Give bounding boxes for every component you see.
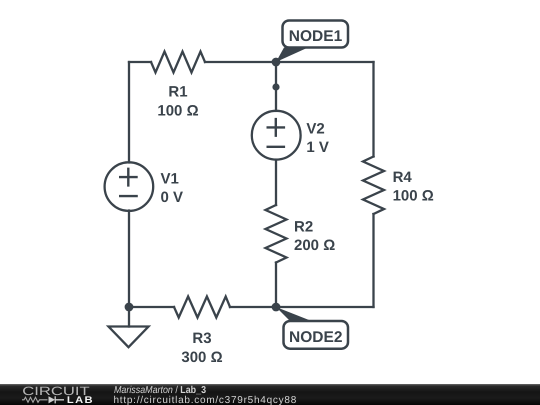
V1 minus sign <box>120 195 136 197</box>
svg-text:R3: R3 <box>192 330 211 347</box>
wire right side upper <box>372 62 374 157</box>
svg-text:300 Ω: 300 Ω <box>181 349 222 366</box>
logo resistor squiggle <box>22 397 48 402</box>
svg-text:NODE2: NODE2 <box>289 329 342 346</box>
svg-text:R1: R1 <box>168 83 187 100</box>
footer author line <box>114 386 206 396</box>
NODE2 label box <box>284 321 349 349</box>
V1 plus sign <box>120 169 136 186</box>
svg-text:200 Ω: 200 Ω <box>294 237 335 254</box>
NODE1 flag tail <box>276 48 308 63</box>
junction dot V2 top terminal <box>272 83 279 90</box>
svg-text:100 Ω: 100 Ω <box>157 102 198 119</box>
wire top-left to R1 <box>129 61 151 63</box>
resistor R1 <box>151 52 205 73</box>
logo diode <box>49 396 56 403</box>
voltage source V2 circle <box>252 111 301 160</box>
svg-text:R2: R2 <box>294 219 313 236</box>
svg-text:NODE1: NODE1 <box>289 28 343 45</box>
resistor R4 <box>363 157 384 215</box>
wire left side lower <box>128 211 130 308</box>
voltage source V1 circle <box>105 162 154 211</box>
resistor R3 <box>174 297 230 318</box>
footer url line <box>114 396 298 405</box>
junction dot ground corner <box>125 303 134 312</box>
wire bottom right <box>230 306 374 308</box>
V2 plus sign <box>268 119 284 136</box>
wire R2 to NODE2 <box>275 263 277 308</box>
CircuitLab logo <box>0 384 100 405</box>
V2 minus sign <box>268 146 284 148</box>
wire NODE1 to V2 <box>275 62 277 111</box>
svg-text:V2: V2 <box>306 120 324 137</box>
junction dot node B bottom (NODE2) <box>272 303 281 312</box>
ground stub wire <box>128 307 130 327</box>
svg-text:LAB: LAB <box>67 395 94 405</box>
svg-text:R4: R4 <box>393 169 413 186</box>
junction dot node A top (NODE1) <box>272 58 281 67</box>
NODE2 flag tail <box>276 307 312 321</box>
resistor R2 <box>266 205 287 263</box>
svg-text:V1: V1 <box>161 171 179 188</box>
wire R1 to top-right corner <box>205 61 374 63</box>
wire right side lower <box>372 214 374 307</box>
wire V2 to R2 <box>275 160 277 205</box>
svg-text:1 V: 1 V <box>306 139 329 156</box>
svg-text:0 V: 0 V <box>161 189 184 206</box>
wire bottom left <box>129 306 174 308</box>
NODE1 label box <box>283 21 349 48</box>
wire left side upper <box>128 62 130 163</box>
svg-text:100 Ω: 100 Ω <box>393 188 434 205</box>
ground symbol triangle <box>109 327 149 348</box>
footer bar <box>0 384 540 405</box>
